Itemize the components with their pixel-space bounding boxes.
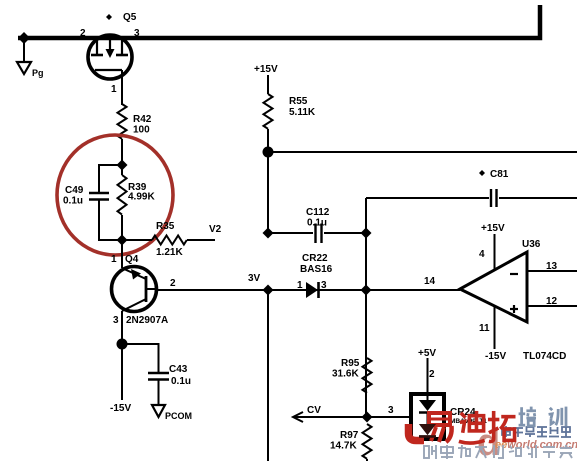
wire: 3V bus down to bottom edge bbox=[267, 290, 269, 461]
node: C112 right bbox=[361, 228, 372, 239]
svg-text:+15V: +15V bbox=[481, 223, 505, 234]
wire: +5V to CR24 bbox=[427, 358, 429, 394]
wire: Q4 collector down bbox=[121, 311, 123, 344]
transistor Q5 (MOSFET) bbox=[80, 12, 140, 95]
op-amp U36 TL074CD bbox=[424, 223, 577, 362]
svg-text:1: 1 bbox=[297, 280, 303, 291]
svg-text:CV: CV bbox=[307, 405, 321, 416]
svg-text:PCOM: PCOM bbox=[165, 411, 192, 421]
wire: to -15V bbox=[121, 344, 123, 400]
resistor R42 100 bbox=[118, 104, 152, 139]
annotation: red highlight circle bbox=[57, 135, 173, 255]
svg-text:-15V: -15V bbox=[110, 403, 131, 414]
node: Pg junction bbox=[18, 32, 30, 44]
node: CR22/R95 junction bbox=[361, 285, 372, 296]
capacitor C49 0.1u bbox=[63, 165, 122, 240]
svg-text:C43: C43 bbox=[169, 364, 188, 375]
svg-text:C49: C49 bbox=[65, 185, 84, 196]
capacitor C81 bbox=[366, 169, 577, 207]
diode CR22 BAS16 bbox=[297, 253, 333, 298]
svg-text:Q5: Q5 bbox=[123, 12, 137, 23]
svg-text:100: 100 bbox=[133, 125, 150, 136]
resistor R55 5.11K bbox=[264, 94, 316, 129]
watermark blue glyph xun bbox=[549, 407, 566, 427]
wire: +15V to R55 bbox=[267, 75, 269, 94]
svg-text:R35: R35 bbox=[156, 221, 175, 232]
svg-text:4.99K: 4.99K bbox=[128, 192, 155, 203]
watermark text dianzi gongcheng shijie (blue-gray pseudo glyphs) bbox=[502, 426, 571, 437]
node: R39/R35/Q4 junction bbox=[117, 235, 128, 246]
svg-text:Pg: Pg bbox=[32, 68, 44, 78]
svg-text:3: 3 bbox=[134, 28, 140, 39]
svg-text:2N2907A: 2N2907A bbox=[126, 315, 168, 326]
svg-text:R55: R55 bbox=[289, 96, 308, 107]
svg-text:0.1u: 0.1u bbox=[171, 376, 191, 387]
svg-text:3: 3 bbox=[113, 315, 119, 326]
wire: node to Q4 emitter bbox=[121, 240, 123, 268]
transistor Q4 2N2907A bbox=[111, 254, 176, 326]
svg-text:BAS16: BAS16 bbox=[300, 264, 333, 275]
resistor R97 14.7K bbox=[330, 424, 372, 461]
svg-text:3: 3 bbox=[321, 280, 327, 291]
svg-text:1: 1 bbox=[111, 84, 117, 95]
ground PCOM bbox=[152, 405, 192, 421]
wire: node down to C112 row bbox=[267, 152, 269, 233]
resistor R39 4.99K bbox=[118, 165, 156, 240]
node: R42/R39/C49 junction bbox=[117, 160, 128, 171]
resistor R95 31.6K bbox=[332, 358, 372, 393]
svg-text:U36: U36 bbox=[522, 239, 541, 250]
svg-text:1: 1 bbox=[111, 254, 117, 265]
wire: node to right edge bbox=[268, 151, 577, 153]
svg-text:13: 13 bbox=[546, 261, 558, 272]
svg-text:+5V: +5V bbox=[418, 348, 436, 359]
svg-text:5.11K: 5.11K bbox=[289, 107, 316, 118]
node: CV junction bbox=[362, 412, 373, 423]
svg-text:0.1u: 0.1u bbox=[63, 196, 83, 207]
node: 3V junction bbox=[263, 285, 274, 296]
wire: vertical C81/C112/CR22/R95 bus bbox=[365, 198, 367, 417]
capacitor C112 0.1u bbox=[268, 207, 366, 243]
svg-text:C112: C112 bbox=[306, 207, 330, 218]
svg-text:11: 11 bbox=[479, 323, 490, 334]
svg-text:V2: V2 bbox=[209, 224, 222, 235]
svg-text:R97: R97 bbox=[340, 430, 359, 441]
watermark red glyph yi bbox=[409, 413, 452, 442]
svg-text:0.1u: 0.1u bbox=[307, 218, 327, 229]
diode CR24 lower diode redrawn over watermark bbox=[419, 424, 436, 435]
watermark blue glyph pei bbox=[519, 407, 536, 426]
svg-text:+15V: +15V bbox=[254, 64, 278, 75]
wire: Q4 base to op-amp bbox=[157, 289, 460, 291]
wire: top thick rail bbox=[18, 5, 540, 38]
watermark bbox=[409, 407, 577, 461]
svg-text:2: 2 bbox=[429, 369, 435, 380]
wire: R42 to node bbox=[121, 139, 123, 165]
svg-text:R42: R42 bbox=[133, 114, 152, 125]
svg-text:14: 14 bbox=[424, 276, 436, 287]
ground Pg bbox=[17, 38, 44, 78]
svg-text:R95: R95 bbox=[341, 358, 360, 369]
resistor R35 1.21K bbox=[122, 221, 215, 258]
svg-text:-15V: -15V bbox=[485, 351, 506, 362]
svg-text:2: 2 bbox=[170, 278, 176, 289]
capacitor C43 0.1u bbox=[122, 344, 191, 405]
svg-text:1.21K: 1.21K bbox=[156, 247, 183, 258]
svg-text:3V: 3V bbox=[248, 273, 261, 284]
svg-text:3: 3 bbox=[388, 405, 394, 416]
node: C112 left bbox=[263, 228, 274, 239]
svg-text:12: 12 bbox=[546, 296, 558, 307]
svg-text:4: 4 bbox=[479, 249, 485, 260]
svg-text:TL074CD: TL074CD bbox=[523, 351, 566, 362]
wire: R55 to node bbox=[267, 129, 269, 152]
svg-text:14.7K: 14.7K bbox=[330, 441, 357, 452]
wire CV with off-page arrow bbox=[293, 405, 409, 422]
watermark text shepin he tianxian sheji zhuanjia (light slate pseudo glyphs) bbox=[424, 445, 572, 459]
wire: Q5 to R42 bbox=[121, 70, 123, 105]
watermark red glyph di bbox=[459, 411, 485, 443]
svg-text:2: 2 bbox=[80, 28, 86, 39]
svg-text:31.6K: 31.6K bbox=[332, 369, 359, 380]
node: collector/C43 junction bbox=[117, 339, 128, 350]
diode CR24 (dual, boxed) bbox=[411, 394, 487, 439]
svg-text:Q4: Q4 bbox=[125, 254, 139, 265]
watermark red glyph tuo bbox=[488, 411, 516, 442]
svg-text:C81: C81 bbox=[490, 169, 509, 180]
node: R55 output bbox=[263, 147, 274, 158]
svg-text:CR22: CR22 bbox=[302, 253, 328, 264]
